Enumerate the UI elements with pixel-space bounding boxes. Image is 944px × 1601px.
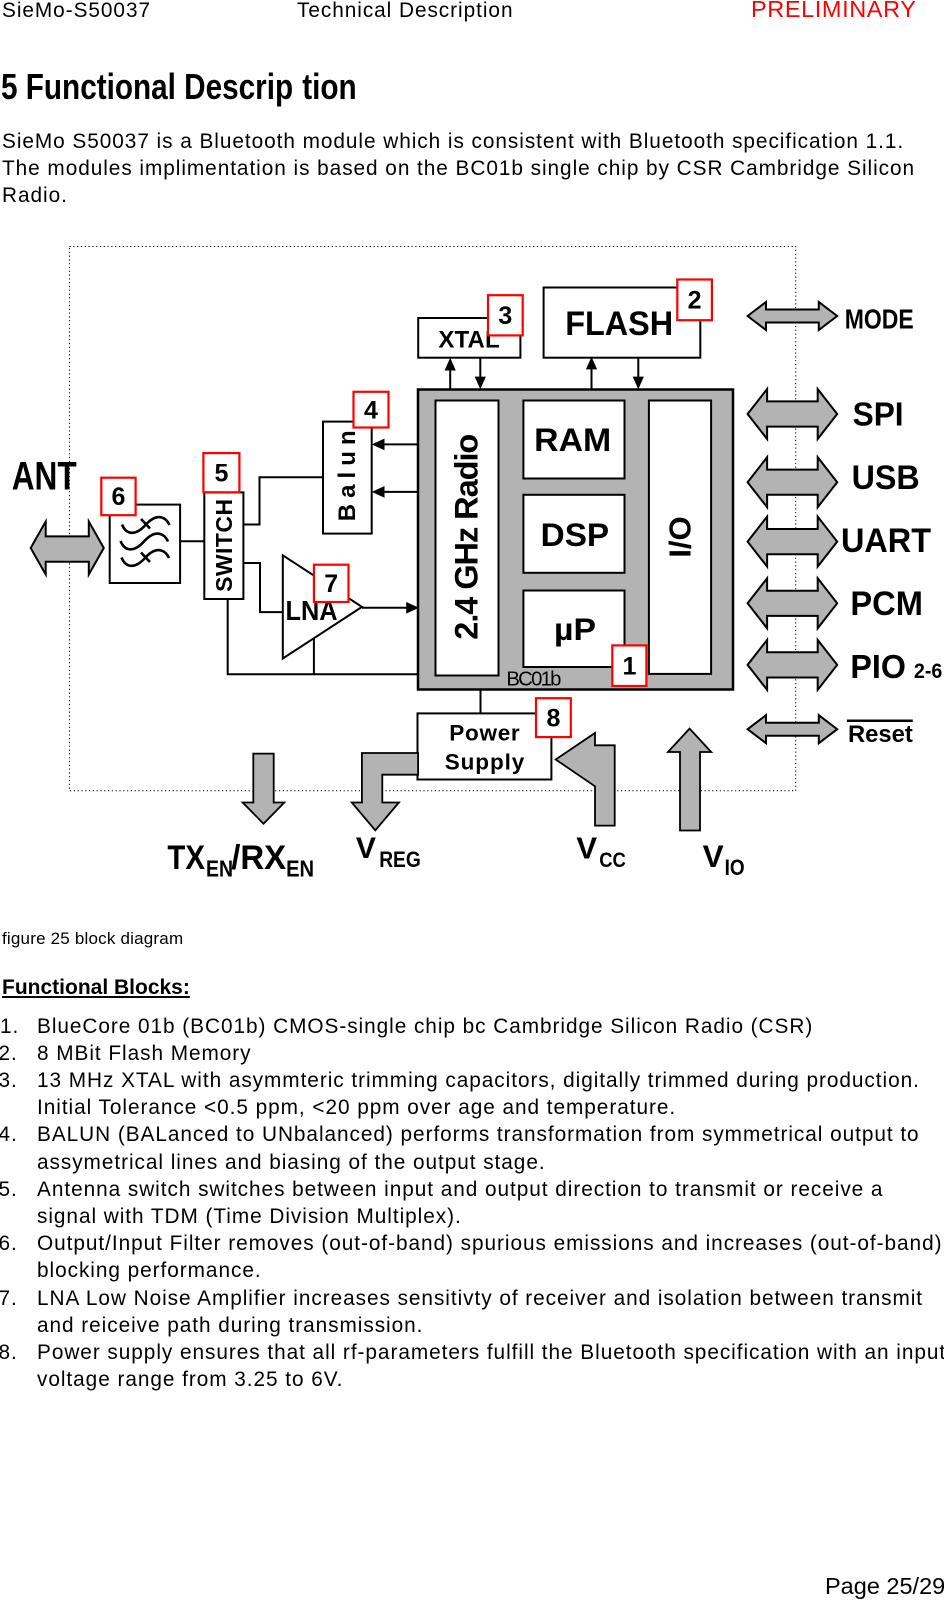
net label VIO xyxy=(703,838,745,880)
svg-text:TX: TX xyxy=(167,839,205,877)
filter wave top with slash xyxy=(122,517,170,533)
net label TXEN/RXEN xyxy=(167,839,314,881)
crystal XTAL box xyxy=(418,318,520,358)
wire LNA bottom stub xyxy=(313,639,315,675)
svg-text:1: 1 xyxy=(622,653,636,681)
svg-text:Balun: Balun xyxy=(334,430,361,521)
header right xyxy=(751,0,917,23)
SPI bidirectional arrow xyxy=(748,389,838,439)
header left xyxy=(2,0,151,24)
VCC elbow arrow xyxy=(556,733,615,826)
amplifier LNA triangle xyxy=(283,555,362,658)
svg-text:3: 3 xyxy=(498,302,512,330)
svg-text:MODE: MODE xyxy=(845,304,914,335)
net label VREG xyxy=(356,832,421,872)
functional blocks heading xyxy=(2,976,190,1000)
svg-text:2: 2 xyxy=(688,287,702,315)
wire chip to FLASH arrow up xyxy=(586,357,597,389)
svg-text:6: 6 xyxy=(111,483,125,511)
svg-text:4: 4 xyxy=(364,396,378,424)
svg-text:ANT: ANT xyxy=(12,455,77,499)
wire FLASH to chip arrow down xyxy=(633,358,644,390)
intro paragraph xyxy=(2,128,915,210)
svg-text:V: V xyxy=(356,832,376,865)
svg-text:USB: USB xyxy=(852,459,920,497)
VIO up arrow xyxy=(668,729,711,831)
MODE label xyxy=(845,304,914,335)
tag 3 xyxy=(488,295,523,335)
svg-text:SWITCH: SWITCH xyxy=(211,499,237,592)
svg-text:Supply: Supply xyxy=(445,750,525,775)
tag 7 xyxy=(314,565,349,602)
wire LNA to radio with arrowhead xyxy=(362,602,419,614)
tag 2 xyxy=(677,280,712,321)
memory FLASH box xyxy=(544,288,701,358)
svg-text:µP: µP xyxy=(554,612,596,647)
wire switch to balun xyxy=(243,477,323,524)
svg-text:V: V xyxy=(576,831,597,866)
figure caption xyxy=(2,929,183,949)
block uP xyxy=(523,591,624,668)
svg-text:Reset: Reset xyxy=(848,721,913,748)
PIO label xyxy=(850,649,942,686)
block DSP xyxy=(523,495,624,573)
svg-text:2-6: 2-6 xyxy=(914,659,943,683)
svg-text:UART: UART xyxy=(841,522,931,560)
switch SW1 box xyxy=(204,492,243,599)
wire radio to balun lower with arrowhead xyxy=(372,486,418,498)
svg-text:I/O: I/O xyxy=(662,516,697,558)
svg-text:SPI: SPI xyxy=(853,396,904,433)
Reset label with overline xyxy=(847,721,913,748)
USB bidirectional arrow xyxy=(748,457,838,507)
filter wave middle xyxy=(121,534,169,550)
tag 1 xyxy=(612,645,646,686)
USB label xyxy=(852,459,920,497)
section title xyxy=(1,66,357,108)
ANT bidirectional arrow xyxy=(31,522,104,575)
node ANT label xyxy=(12,455,77,499)
PCM label xyxy=(850,585,923,623)
UART bidirectional arrow xyxy=(748,517,838,567)
block 2.4 GHz Radio xyxy=(436,401,499,676)
svg-text:DSP: DSP xyxy=(541,517,610,553)
diagram dashed frame xyxy=(70,247,796,791)
TXEN RXEN down arrow xyxy=(243,754,285,824)
svg-text:EN: EN xyxy=(286,856,314,882)
svg-text:Power: Power xyxy=(449,721,520,746)
filter F1 box xyxy=(110,505,180,583)
numbered list xyxy=(1,1012,3,1014)
header center xyxy=(297,0,513,24)
power supply box xyxy=(418,713,552,779)
wire filter to switch xyxy=(180,540,204,542)
tag 8 xyxy=(536,698,571,737)
balun T1 box xyxy=(323,422,372,534)
wire switch to LNA xyxy=(243,563,282,612)
block IO xyxy=(649,401,711,674)
wire switch bottom to chip xyxy=(228,599,418,674)
wire chip to XTAL arrow up xyxy=(445,358,456,389)
UART label xyxy=(841,522,931,560)
svg-text:CC: CC xyxy=(599,848,626,872)
tag 5 xyxy=(203,453,239,492)
net label VCC xyxy=(576,831,626,872)
svg-text:2.4 GHz Radio: 2.4 GHz Radio xyxy=(449,434,485,640)
block RAM xyxy=(523,401,624,479)
svg-text:7: 7 xyxy=(324,570,338,598)
wire XTAL to chip arrow down xyxy=(475,358,486,389)
block diagram xyxy=(0,0,944,910)
tag 6 xyxy=(101,478,135,516)
svg-text:EN: EN xyxy=(206,856,233,882)
svg-text:RAM: RAM xyxy=(534,422,611,458)
svg-text:/RX: /RX xyxy=(231,839,286,877)
svg-text:V: V xyxy=(703,838,724,874)
svg-text:IO: IO xyxy=(725,855,745,880)
tag 4 xyxy=(354,392,389,428)
chip BC01b body xyxy=(418,390,733,691)
svg-text:REG: REG xyxy=(379,847,421,872)
MODE bidirectional arrow xyxy=(748,302,838,330)
wire chip to power supply xyxy=(480,689,482,713)
SPI label xyxy=(853,396,904,433)
wire radio to balun upper with arrowhead xyxy=(372,439,418,451)
svg-text:PIO: PIO xyxy=(850,649,906,686)
Reset bidirectional arrow xyxy=(748,715,838,743)
svg-text:BC01b: BC01b xyxy=(506,668,561,690)
svg-text:8: 8 xyxy=(546,704,560,732)
svg-text:FLASH: FLASH xyxy=(565,305,673,343)
VREG elbow arrow xyxy=(352,753,418,830)
svg-text:5: 5 xyxy=(214,459,228,487)
page number xyxy=(825,1573,944,1600)
PIO bidirectional arrow xyxy=(748,640,838,690)
PCM bidirectional arrow xyxy=(748,578,838,628)
filter wave bottom with slash xyxy=(122,550,170,566)
svg-text:PCM: PCM xyxy=(850,585,923,623)
